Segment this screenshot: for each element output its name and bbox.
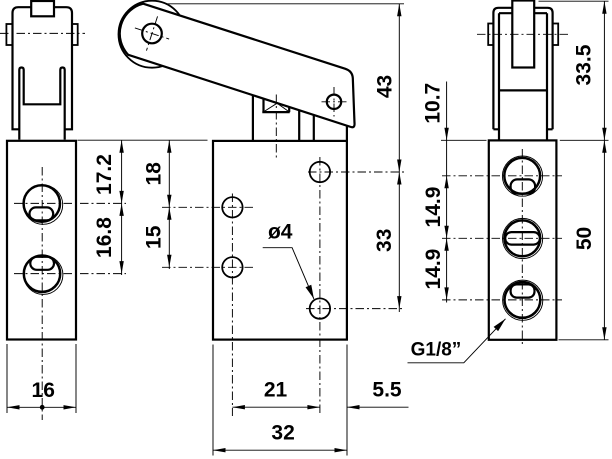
svg-text:G1/8”: G1/8” — [411, 340, 462, 361]
pin centerline cross rotated (middle view) — [129, 11, 174, 56]
port A (right view) — [504, 158, 540, 194]
node centerline pin axis (left view) — [0, 32, 85, 34]
roller edge-on (right view) — [512, 1, 534, 68]
stem centerline (middle view) — [275, 95, 277, 159]
extension lines 16 dim (left view bottom) — [7, 344, 76, 413]
dim line 33.5/50 — [603, 1, 605, 340]
leader line diameter 4 — [263, 248, 314, 299]
pin tab right (right view) — [553, 24, 559, 46]
svg-text:17.2: 17.2 — [93, 154, 116, 195]
top tab (left view) — [31, 1, 54, 16]
node port1 centerline (left view) — [14, 202, 126, 204]
node vertical centerline (left view) — [41, 167, 43, 420]
dim line 10.7/14.9/14.9 — [446, 82, 448, 303]
svg-text:33: 33 — [373, 229, 396, 252]
plunger head diagonals (middle view) — [264, 103, 290, 112]
plunger head trapezoid (middle view) — [262, 99, 289, 113]
pin tab right (left view) — [72, 24, 78, 45]
svg-text:16.8: 16.8 — [93, 217, 116, 258]
holes L vertical centerline — [231, 194, 233, 417]
port A thread circle (right view) — [502, 156, 542, 196]
hole R1 centerline horizontal — [308, 171, 405, 173]
port B centerline (right view) — [442, 237, 562, 239]
holes R vertical centerline — [319, 157, 321, 416]
pin hole (middle view) — [142, 24, 162, 44]
port C (right view) — [505, 282, 541, 318]
bracket housing (left view) — [13, 7, 73, 129]
svg-text:ø4: ø4 — [268, 221, 293, 244]
bracket inner top edges (right view) — [499, 12, 547, 14]
extension lines 32 dim (middle view bottom) — [213, 345, 347, 456]
valve body (left view) — [7, 141, 76, 340]
svg-text:5.5: 5.5 — [372, 379, 402, 402]
stem right lines (middle view) — [299, 110, 314, 141]
svg-text:14.9: 14.9 — [422, 187, 445, 228]
port B (right view) — [504, 220, 540, 256]
svg-text:33.5: 33.5 — [573, 44, 596, 85]
dim line 16 — [7, 406, 76, 408]
vertical centerline (right view) — [521, 149, 523, 345]
hole R2 (middle view) — [310, 298, 330, 318]
bracket right plate (right view) — [534, 8, 552, 130]
leader line G1/8 — [408, 319, 506, 363]
plunger stem left edge (middle view) — [252, 95, 254, 141]
bracket inner walls (right view) — [499, 13, 547, 140]
svg-text:50: 50 — [573, 227, 596, 250]
pin tab left (right view) — [488, 24, 493, 46]
hole L2 (middle view) — [222, 257, 242, 277]
svg-text:18: 18 — [142, 162, 165, 186]
extension line roller top (middle) — [167, 3, 405, 5]
extension line top of bodies — [78, 139, 208, 141]
port P2 (left view) — [24, 256, 60, 292]
lever arm (middle view) — [120, 4, 355, 128]
port P1 (left view) — [24, 185, 60, 221]
port C thread circle (right view) — [503, 280, 543, 320]
body right edge upper extension (middle view) — [346, 126, 348, 141]
hole L1 (middle view) — [222, 197, 242, 217]
port C slot (right view) — [511, 284, 535, 297]
valve body (middle view) — [213, 141, 347, 340]
roller (middle view) — [119, 1, 186, 68]
extension line body top (right view right side) — [560, 139, 609, 141]
svg-text:15: 15 — [142, 225, 165, 249]
hole R1 (middle view) — [310, 162, 330, 182]
extension line body top (right view left side) — [441, 139, 487, 141]
dim line 17.2/16.8 — [121, 140, 123, 275]
svg-text:16: 16 — [32, 379, 55, 402]
hole R2 centerline horizontal — [306, 308, 405, 310]
node port2 centerline (left view) — [14, 273, 126, 275]
hole L2 centerline horizontal — [162, 266, 256, 268]
lever end hole (middle view) — [327, 95, 341, 109]
port B thread circle (right view) — [502, 218, 542, 258]
port B slot (right view) — [505, 232, 540, 245]
pin tab left (left view) — [6, 24, 12, 45]
port C centerline (right view) — [442, 299, 562, 301]
dim line 43/33 — [398, 4, 400, 312]
svg-text:21: 21 — [264, 379, 288, 402]
port P1 thread circle (left view) — [23, 185, 62, 224]
svg-text:43: 43 — [374, 75, 397, 98]
svg-text:14.9: 14.9 — [422, 249, 445, 290]
hole L1 centerline horizontal — [162, 206, 256, 208]
pin centerline (right view) — [477, 33, 569, 35]
dim line 32 — [213, 449, 347, 451]
extension line roller top (right view) — [539, 0, 609, 2]
plunger fork (left view) — [19, 68, 64, 140]
dim line 5.5 — [347, 406, 409, 408]
svg-text:10.7: 10.7 — [422, 83, 445, 124]
port P1 slot (left view) — [30, 207, 54, 220]
port A slot (right view) — [511, 179, 535, 193]
lever hole centerlines (middle view) — [322, 87, 347, 117]
extension line body bottom (right view) — [559, 339, 609, 341]
bracket left plate (right view) — [493, 8, 512, 130]
port P2 slot (left view) — [30, 257, 54, 270]
plunger top line (right view) — [499, 89, 547, 91]
bracket bottom ticks (right view) — [493, 128, 552, 130]
svg-text:32: 32 — [271, 422, 294, 445]
dim line 21 — [232, 406, 320, 408]
port A centerline (right view) — [442, 175, 562, 177]
valve body (right view) — [489, 140, 557, 339]
port P2 thread circle (left view) — [24, 255, 63, 294]
dim line 18/15 — [168, 140, 170, 269]
center dot 16 dim — [40, 405, 45, 410]
